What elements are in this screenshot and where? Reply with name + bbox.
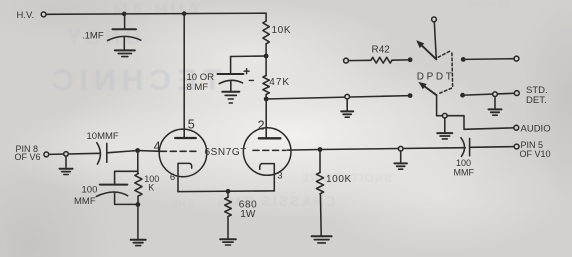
wire: electrolytic stem xyxy=(230,57,232,74)
ground (grid network) xyxy=(131,239,146,241)
resistor 680 1W xyxy=(225,197,232,216)
svg-text:100: 100 xyxy=(456,158,471,168)
capacitor 10 OR 8 MF xyxy=(218,73,244,75)
left grid (pin 4, dashed) xyxy=(161,150,200,152)
wire: audio tie stem xyxy=(444,118,446,133)
svg-text:5: 5 xyxy=(188,118,195,132)
wire: input run xyxy=(49,153,101,154)
ground (output 100K) xyxy=(312,235,332,237)
svg-text:6: 6 xyxy=(170,172,175,183)
svg-text:3: 3 xyxy=(277,171,282,182)
wire: output tie stem xyxy=(400,151,402,163)
svg-text:K: K xyxy=(148,183,154,193)
wire: STD DET tie stem xyxy=(494,97,496,109)
ground (680) xyxy=(220,238,236,240)
wire: node to electrolytic xyxy=(231,55,267,58)
wire: node to 47K xyxy=(265,56,267,76)
polarity + mark xyxy=(244,69,249,74)
svg-text:100K: 100K xyxy=(326,174,352,185)
svg-text:OF V6: OF V6 xyxy=(15,152,41,162)
wire: 100MMF branch top xyxy=(115,171,138,184)
resistor 100K (output) xyxy=(316,173,323,194)
ground (input tie) xyxy=(60,168,73,170)
ground (tie on plate wire) xyxy=(341,110,353,112)
wire: 680 to ground xyxy=(227,217,229,239)
ground (audio tie) xyxy=(437,132,452,134)
node: lower-left throw contact xyxy=(408,93,413,98)
svg-text:100: 100 xyxy=(82,184,98,195)
wire: 100K top lead xyxy=(319,150,321,173)
terminal PIN 5 OF V10 xyxy=(514,144,519,149)
tube envelope (right triode) xyxy=(243,128,291,176)
tie point (chassis) on audio wire xyxy=(443,113,448,118)
terminal H.V. xyxy=(41,12,46,17)
svg-text:R42: R42 xyxy=(372,45,391,56)
wire: 47K node to switch xyxy=(266,96,410,99)
wire: cathode bus xyxy=(178,190,274,193)
svg-text:8 MF: 8 MF xyxy=(187,82,209,93)
node: plate/switch junction xyxy=(264,97,269,102)
svg-text:DET.: DET. xyxy=(526,95,547,106)
svg-text:10MMF: 10MMF xyxy=(87,131,119,142)
tube envelope (left triode) xyxy=(159,129,207,177)
right plate xyxy=(259,137,281,139)
node: left plate tap xyxy=(182,11,187,16)
node: cap/resistor junction xyxy=(136,202,141,207)
wire: 10K to node xyxy=(265,44,267,56)
ghost print-through text (mirrored) xyxy=(110,0,199,21)
wire: tie stem xyxy=(346,99,348,111)
tie point (chassis) on plate wire xyxy=(345,94,350,99)
wire: rail to 10K xyxy=(265,13,267,21)
right cathode (pin 3) xyxy=(260,164,275,191)
wire: lower-right throw to STD DET xyxy=(465,93,515,95)
wire: cap to PIN 5 terminal xyxy=(470,146,515,149)
wire: right grid out xyxy=(287,149,320,152)
node: cathode junction xyxy=(226,189,231,194)
wire: 100MMF branch bottom xyxy=(115,192,138,204)
wire: grid node down xyxy=(137,151,139,174)
switch arm (lower pole) xyxy=(425,87,437,96)
wire: grid node to tube xyxy=(138,150,161,153)
wire: lower pivot stem xyxy=(437,95,443,116)
svg-text:.1MF: .1MF xyxy=(82,30,104,41)
wire: cathode node to 680 xyxy=(227,191,229,197)
tie point (chassis) on STD DET wire xyxy=(493,92,498,97)
resistor 10K xyxy=(263,21,269,44)
resistor 100K (grid) xyxy=(135,174,142,197)
right plate lead (pin 2) xyxy=(265,99,267,138)
node: lower-right throw contact xyxy=(460,93,465,98)
switch arm (upper pole) xyxy=(422,46,436,60)
terminal R42 left xyxy=(344,58,349,63)
wire: audio run xyxy=(447,116,514,130)
svg-text:MMF: MMF xyxy=(454,168,475,178)
wire: input tie stem xyxy=(65,156,67,168)
node: grid junction xyxy=(135,148,140,153)
wire: 47K to node xyxy=(265,94,267,99)
mechanical link (dashed) xyxy=(438,51,452,94)
left plate lead (pin 5) xyxy=(183,14,185,138)
ground (output tie) xyxy=(394,162,407,164)
resistor 47K xyxy=(263,76,269,95)
ground (electrolytic) xyxy=(222,91,239,93)
left cathode (pin 6) xyxy=(178,163,192,191)
node: 10K/47K junction xyxy=(264,54,269,59)
capacitor 100 MMF (output) xyxy=(461,138,465,157)
wire: upper-right throw to terminal xyxy=(465,58,514,61)
svg-text:MMF: MMF xyxy=(74,196,96,207)
capacitor 100MMF (grid) xyxy=(100,184,127,186)
svg-text:2: 2 xyxy=(258,118,265,132)
svg-text:H.V.: H.V. xyxy=(17,10,35,21)
terminal (upper right) xyxy=(514,56,519,61)
capacitor 10MMF xyxy=(97,143,101,164)
right grid (dashed) xyxy=(253,149,286,151)
tie point (chassis) on output wire xyxy=(398,146,403,151)
resistor R42 xyxy=(348,59,371,61)
node: upper-right throw contact xyxy=(461,57,466,62)
ground (STD DET tie) xyxy=(489,108,502,110)
wire: 10MMF to grid node xyxy=(107,151,138,153)
left plate xyxy=(175,137,196,139)
svg-text:47K: 47K xyxy=(269,77,290,88)
node: 100K tap xyxy=(318,147,323,152)
node: upper-left throw contact xyxy=(408,57,413,62)
wire: 100K bottom lead xyxy=(319,194,322,236)
svg-text:1W: 1W xyxy=(240,209,256,220)
wire: lower node to ground xyxy=(137,205,139,240)
wire: 100K to lower node xyxy=(137,196,139,205)
polarity - mark xyxy=(249,79,253,81)
terminal STD. DET. xyxy=(514,91,519,96)
wire: output run xyxy=(320,148,465,150)
wire: top terminal to pivot xyxy=(434,22,436,60)
capacitor .1MF xyxy=(124,14,126,29)
svg-text:6SN7GT: 6SN7GT xyxy=(205,147,248,158)
svg-text:OF V10: OF V10 xyxy=(520,149,551,159)
terminal: switch common (top) xyxy=(432,17,437,22)
terminal AUDIO xyxy=(514,125,519,130)
svg-text:AUDIO: AUDIO xyxy=(521,124,551,135)
svg-text:10K: 10K xyxy=(272,25,292,36)
ground (.1MF) xyxy=(115,49,135,51)
tie point (chassis) on input wire xyxy=(64,152,69,157)
wire: HV rail xyxy=(46,13,266,14)
terminal PIN 8 OF V6 xyxy=(44,152,49,157)
node: .1MF tap xyxy=(122,12,127,17)
svg-text:DPDT: DPDT xyxy=(417,71,455,82)
